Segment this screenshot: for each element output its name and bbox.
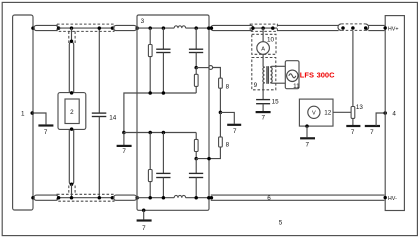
wire terminal to resistor chain — [213, 68, 221, 79]
node box3 left bottom — [135, 196, 139, 200]
svg-text:HV-: HV- — [388, 196, 397, 202]
dashed pill top right — [341, 24, 365, 31]
ground (box3 case) — [143, 210, 145, 219]
ground (capacitor 15) — [262, 104, 264, 111]
svg-text:2: 2 — [70, 109, 74, 116]
node dashed pill right — [364, 26, 368, 30]
node cap14 bottom — [98, 196, 102, 200]
svg-text:6: 6 — [267, 195, 271, 202]
dashed box 10 — [252, 34, 276, 54]
node R col top — [148, 26, 152, 30]
node coupling right — [271, 26, 275, 30]
node bot rail R col — [148, 196, 152, 200]
node pill end top — [57, 26, 61, 30]
resistor (box3 top) — [149, 28, 151, 44]
dashed stub to box 2 (bottom) — [68, 186, 70, 195]
dashed box 9 — [252, 58, 276, 90]
svg-text:14: 14 — [109, 115, 117, 122]
ground (voltmeter) — [306, 126, 308, 137]
node below box 2 — [70, 183, 74, 187]
svg-text:8: 8 — [226, 84, 230, 91]
svg-text:10: 10 — [267, 36, 275, 43]
node HV+ terminal — [384, 26, 387, 29]
node box 2 top — [70, 91, 74, 95]
wire box3 top rail — [137, 27, 174, 29]
wire pill box1 to dashed net (top) — [34, 25, 58, 30]
wire box3 bottom rail — [137, 197, 174, 199]
wire bottom-left net — [59, 197, 113, 199]
svg-text:7: 7 — [370, 129, 374, 136]
svg-text:4: 4 — [392, 110, 396, 117]
svg-text:3: 3 — [141, 18, 145, 25]
svg-text:A: A — [261, 46, 265, 52]
svg-text:7: 7 — [233, 128, 237, 135]
dashed shield box bottom-left — [57, 194, 114, 201]
svg-text:9: 9 — [254, 82, 258, 89]
node bus C col — [162, 91, 166, 95]
svg-text:HV+: HV+ — [388, 26, 399, 32]
node bottom run left — [210, 196, 214, 200]
inductor L bottom — [174, 195, 185, 197]
wire pill box3 to coupling net (top) — [211, 25, 254, 30]
wire resistor 8 to node — [219, 88, 221, 112]
hollow wire coupling to dashed pill — [277, 24, 339, 26]
transformer 9 secondary — [271, 66, 273, 83]
svg-text:12: 12 — [324, 109, 332, 116]
component box around 2 — [58, 93, 86, 130]
resistor 13 — [352, 31, 354, 107]
node voltmeter ground — [305, 124, 309, 128]
resistor 8 (upper) — [219, 78, 223, 88]
svg-text:7: 7 — [44, 129, 48, 136]
wire pill box1 to dashed net (bottom) — [34, 195, 58, 200]
hollow wire 6 bottom run — [211, 194, 385, 196]
node dashed pill mid — [351, 26, 355, 30]
artificial network box 3 — [137, 15, 209, 210]
capacitor (box3 bottom) — [162, 133, 164, 174]
terminal circle box3 HV+ out — [209, 66, 213, 70]
hollow wire to HV+ — [368, 24, 384, 26]
ammeter 10 — [262, 28, 264, 42]
node bus R col — [148, 91, 152, 95]
node pill end bottom — [57, 196, 61, 200]
node between resistors 8 — [219, 111, 223, 115]
ground (resistor chain) — [220, 112, 234, 123]
wire top bus — [124, 93, 196, 133]
wire to bottom net — [71, 184, 73, 197]
resistor (box3 mid top) — [195, 68, 197, 75]
svg-text:15: 15 — [272, 99, 280, 106]
capacitor 15 — [256, 99, 270, 101]
wire box1 to ground — [32, 113, 46, 124]
node pill right top — [210, 26, 214, 30]
resistor 8 (lower) — [219, 112, 221, 136]
svg-text:7: 7 — [142, 225, 146, 232]
node bot bus C col — [162, 131, 166, 135]
node box3 bottom ground — [142, 209, 146, 213]
svg-text:5: 5 — [279, 219, 283, 226]
inductor L top — [174, 26, 185, 28]
svg-text:7: 7 — [305, 142, 309, 149]
transformer 9 primary — [263, 67, 265, 84]
wire pill to box 3 (bottom) — [114, 195, 137, 200]
transformer core — [266, 66, 268, 84]
svg-text:LFS300C: LFS300C — [300, 71, 335, 80]
svg-text:11: 11 — [293, 83, 300, 90]
voltmeter 12 box — [299, 99, 333, 126]
dashed shield box top-left — [57, 24, 114, 31]
svg-text:7: 7 — [122, 148, 126, 155]
capacitor (box3 bottom right) — [195, 159, 197, 174]
ground (node 4) — [365, 125, 380, 127]
svg-text:V: V — [312, 111, 316, 117]
ground (box3 bus) — [123, 133, 125, 146]
node ammeter branch — [261, 26, 265, 30]
wire primary to capacitor 15 — [262, 83, 264, 99]
capacitor 14 — [98, 28, 100, 113]
node on box 1 right edge (top) — [31, 26, 35, 30]
wire tap inside box3 to terminal — [196, 67, 209, 69]
wire inside dashed box — [253, 27, 277, 29]
capacitor (box3 top) — [162, 28, 164, 49]
resistor (box3 bottom) — [149, 133, 151, 170]
hollow lead into box 2 — [69, 43, 73, 93]
supply box 1 — [13, 15, 33, 210]
svg-text:1: 1 — [21, 110, 25, 117]
wire top-left net — [59, 27, 113, 29]
resistor (box3 mid bottom) — [195, 133, 197, 140]
node C col top — [162, 26, 166, 30]
ground (resistor 13) — [352, 118, 354, 125]
generator 11 — [285, 61, 299, 89]
wire voltmeter to resistor 13 — [333, 111, 351, 113]
svg-text:8: 8 — [226, 141, 230, 148]
node after inductor top — [194, 26, 198, 30]
dashed stub to box 2 (top) — [68, 31, 70, 43]
node dashed pill left — [341, 26, 345, 30]
node on box 1 right edge (bottom) — [31, 196, 35, 200]
wire resistor chain to HV- tap — [196, 147, 220, 159]
wire secondary to generator — [272, 65, 285, 67]
node on box 1 ground tap — [30, 111, 34, 115]
svg-text:7: 7 — [262, 115, 266, 122]
hollow lead below box 2 — [69, 130, 73, 184]
svg-text:7: 7 — [351, 129, 355, 136]
wire pill to box 3 (top) — [114, 25, 137, 30]
node dashed box right bottom — [111, 196, 115, 200]
node HV- tap in box3 — [194, 157, 198, 161]
node bot rail C col — [162, 196, 166, 200]
DUT box 4 — [385, 16, 404, 211]
node bot bus R col — [148, 131, 152, 135]
node branch to box 2 — [70, 26, 74, 30]
dashed box around coupling node — [250, 24, 277, 31]
ground (box 1) — [38, 124, 53, 126]
node coupling left — [251, 26, 255, 30]
node box3 right bottom — [207, 196, 211, 200]
node bot rail right col — [194, 196, 198, 200]
node box3 left top — [135, 26, 139, 30]
fuse element 2 — [65, 99, 79, 124]
wire down to box 2 — [71, 28, 73, 41]
node HV- terminal — [384, 196, 387, 199]
node dashed box right top — [111, 26, 115, 30]
node HV+ tap in box3 — [194, 66, 198, 70]
node bus ground — [122, 131, 126, 135]
node box 2 bottom — [70, 127, 74, 131]
capacitor (box3 top right) — [195, 28, 197, 49]
node above box 2 — [70, 40, 74, 44]
wire bottom bus — [124, 132, 196, 134]
node box3 right top — [207, 26, 211, 30]
svg-text:13: 13 — [356, 104, 364, 111]
node chain on box3 edge — [207, 157, 211, 161]
node cap14 top — [98, 26, 102, 30]
wire ground to DUT chassis — [376, 113, 385, 126]
node chassis — [383, 111, 387, 115]
node branch box2 bottom net — [70, 196, 74, 200]
